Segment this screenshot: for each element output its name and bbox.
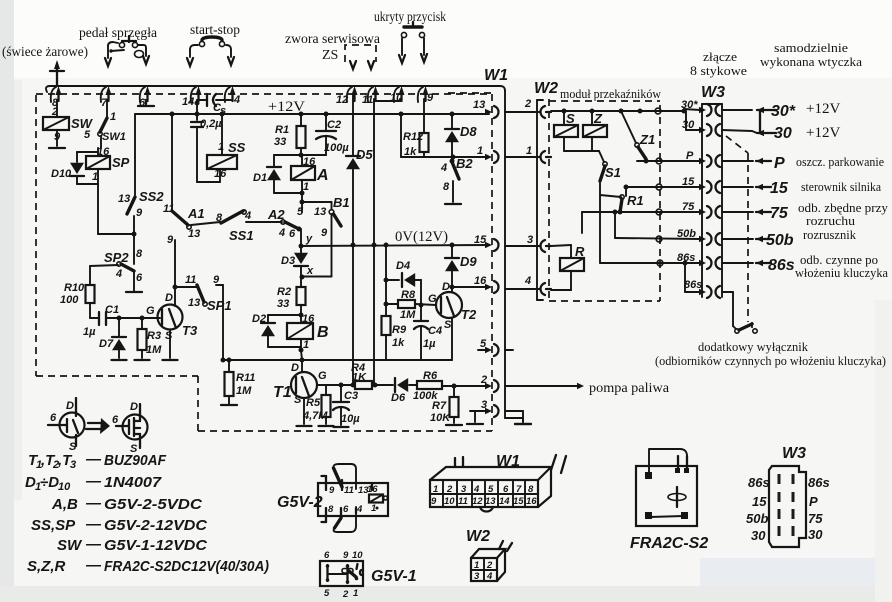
svg-text:D1: D1 bbox=[253, 172, 267, 184]
wire T1 gate bbox=[317, 384, 355, 386]
wire 0V to R9 branch bbox=[385, 245, 387, 316]
svg-text:T2: T2 bbox=[461, 307, 477, 322]
+12V rail wire bbox=[135, 113, 489, 115]
label pompa paliwa bbox=[589, 381, 670, 396]
W2 plug 3D view bbox=[466, 528, 512, 582]
0V rail wire bbox=[301, 245, 489, 246]
pushbutton start-stop bbox=[187, 37, 234, 66]
svg-text:1: 1 bbox=[353, 588, 358, 599]
svg-text:Z: Z bbox=[593, 111, 603, 126]
FRA2C-S2 relay drawing bbox=[630, 449, 708, 552]
svg-text:100µ: 100µ bbox=[324, 142, 349, 154]
svg-text:5: 5 bbox=[84, 129, 91, 141]
switch pedał sprzęgła bbox=[105, 36, 149, 66]
relay R bbox=[551, 244, 585, 290]
svg-text:3: 3 bbox=[481, 399, 487, 411]
svg-text:R9: R9 bbox=[392, 324, 407, 336]
wire T1 source bbox=[303, 398, 305, 424]
wire SP2 to ground bbox=[133, 271, 135, 291]
svg-text:4: 4 bbox=[524, 275, 531, 287]
svg-text:4: 4 bbox=[356, 504, 363, 515]
wire rail to A1 bbox=[171, 114, 173, 210]
bus pin 11 bbox=[362, 86, 379, 106]
svg-text:16: 16 bbox=[214, 168, 227, 180]
svg-text:S1: S1 bbox=[605, 165, 621, 180]
svg-text:R2: R2 bbox=[277, 286, 291, 298]
svg-text:włożeniu kluczyka: włożeniu kluczyka bbox=[795, 266, 888, 280]
W3 plug drawing bbox=[746, 445, 830, 547]
svg-text:2: 2 bbox=[342, 589, 349, 600]
lower rail wire bbox=[221, 358, 387, 363]
svg-text:SW1: SW1 bbox=[102, 131, 126, 143]
svg-text:SP1: SP1 bbox=[207, 298, 232, 313]
svg-text:S,Z,R: S,Z,R bbox=[27, 558, 66, 575]
W1 pin 1 bbox=[477, 145, 499, 163]
label ukryty przycisk bbox=[374, 10, 446, 25]
G5V-1 pinout bbox=[320, 550, 417, 600]
transistor T2 bbox=[428, 281, 477, 331]
svg-text:B2: B2 bbox=[456, 156, 473, 171]
svg-text:W2: W2 bbox=[466, 528, 490, 545]
svg-text:86s: 86s bbox=[768, 257, 795, 274]
svg-text:1: 1 bbox=[474, 560, 479, 571]
svg-text:6: 6 bbox=[112, 414, 119, 426]
wire S Z common bbox=[564, 151, 604, 162]
bus pin 8 bbox=[51, 86, 62, 109]
svg-text:FRA2C-S2DC12V(40/30A): FRA2C-S2DC12V(40/30A) bbox=[104, 558, 269, 575]
svg-text:W3: W3 bbox=[782, 445, 806, 462]
legend line SW bbox=[57, 536, 208, 554]
plug terminal bbox=[722, 236, 771, 242]
label złącze 8 stykowe bbox=[690, 50, 747, 78]
svg-text:G5V-2-5VDC: G5V-2-5VDC bbox=[104, 496, 203, 513]
wire W3 to plug 30 bbox=[722, 130, 757, 133]
svg-text:50b: 50b bbox=[746, 511, 768, 526]
svg-text:1: 1 bbox=[526, 145, 532, 157]
svg-text:1M: 1M bbox=[400, 309, 416, 321]
W3 pin 75 bbox=[699, 206, 720, 218]
ground at W1 bottom right bbox=[515, 423, 531, 425]
diode D10 bbox=[51, 152, 98, 184]
resistor R5 bbox=[302, 385, 331, 424]
svg-text:12: 12 bbox=[472, 496, 483, 507]
relay Z bbox=[583, 111, 607, 151]
svg-text:R5: R5 bbox=[306, 397, 321, 409]
resistor R12 bbox=[401, 99, 429, 158]
svg-text:(świece żarowe): (świece żarowe) bbox=[2, 45, 88, 60]
resistor R4 bbox=[351, 245, 394, 389]
diode D9 bbox=[445, 245, 477, 290]
svg-text:12: 12 bbox=[336, 94, 348, 106]
wire 86s branch down bbox=[683, 261, 703, 293]
transistor T3 bbox=[146, 292, 198, 342]
resistor R10 bbox=[60, 282, 95, 306]
svg-text:D: D bbox=[442, 281, 450, 293]
label 0V(12V) bbox=[395, 229, 448, 245]
svg-text:86s: 86s bbox=[808, 475, 830, 490]
label samodzielnie wykonana wtyczka bbox=[760, 41, 862, 69]
ground below SW bbox=[49, 147, 65, 149]
wire W1 right edge bbox=[505, 91, 523, 422]
switch SP1 bbox=[185, 274, 232, 313]
svg-text:S: S bbox=[294, 394, 302, 406]
resistor R2 bbox=[277, 277, 306, 315]
W3 connector frame bbox=[701, 84, 725, 297]
resistor R3 bbox=[138, 318, 163, 358]
wire pin14 down bbox=[195, 100, 200, 120]
svg-text:Z1: Z1 bbox=[639, 132, 655, 147]
label pedał sprzęgła bbox=[79, 26, 158, 41]
svg-text:4: 4 bbox=[233, 94, 240, 106]
svg-text:1: 1 bbox=[371, 503, 376, 514]
svg-text:10µ: 10µ bbox=[341, 413, 360, 425]
switch SS2 bbox=[118, 189, 164, 219]
plug terminal bbox=[722, 260, 771, 266]
svg-text:D8: D8 bbox=[460, 124, 477, 139]
wire T3 source to ground bbox=[169, 330, 171, 358]
wire SS loop bbox=[197, 169, 220, 182]
svg-text:D4: D4 bbox=[396, 260, 410, 272]
svg-text:R1: R1 bbox=[275, 124, 289, 136]
svg-text:G: G bbox=[318, 370, 327, 382]
svg-text:10: 10 bbox=[390, 92, 403, 104]
module top wire bbox=[551, 108, 684, 114]
capacitor 0.2u bbox=[191, 118, 222, 182]
svg-text:+12V: +12V bbox=[806, 101, 840, 117]
label dodatkowy wyłącznik bbox=[698, 339, 808, 354]
svg-text:16: 16 bbox=[526, 496, 537, 507]
svg-text:W2: W2 bbox=[534, 80, 558, 97]
label 30 right bbox=[774, 125, 840, 142]
relay module dashed box bbox=[549, 99, 660, 301]
svg-text:1M: 1M bbox=[236, 385, 252, 397]
wire A1 to SS1 bbox=[191, 212, 223, 225]
svg-text:T3: T3 bbox=[182, 323, 198, 338]
ground below R3 bbox=[135, 359, 150, 361]
W2 pin 1 bbox=[526, 145, 551, 163]
svg-text:C4: C4 bbox=[428, 325, 442, 337]
wire node x loop bbox=[300, 275, 332, 280]
label zwora serwisowa bbox=[285, 32, 381, 47]
W1 pin 13 bbox=[473, 99, 499, 118]
ground below R5 bbox=[319, 425, 334, 427]
bus pin 7 bbox=[101, 86, 112, 109]
svg-text:R3: R3 bbox=[147, 330, 161, 342]
W2 pin 3 bbox=[527, 234, 551, 252]
legend line T1 T2 T3 bbox=[28, 451, 167, 471]
svg-text:13: 13 bbox=[188, 297, 200, 309]
svg-text:13: 13 bbox=[314, 206, 326, 218]
svg-text:1N4007: 1N4007 bbox=[104, 474, 162, 491]
svg-text:R: R bbox=[575, 244, 585, 259]
diode D6 bbox=[391, 378, 417, 404]
wire pin8 to SW bbox=[56, 100, 58, 117]
label P right bbox=[774, 155, 884, 172]
svg-text:B1: B1 bbox=[333, 195, 350, 210]
W3 pin 15 bbox=[699, 181, 720, 193]
svg-text:14: 14 bbox=[499, 496, 510, 507]
svg-text:10K: 10K bbox=[430, 412, 451, 424]
svg-text:A,B: A,B bbox=[51, 496, 78, 513]
svg-text:W1: W1 bbox=[484, 67, 508, 84]
label świece żarowe bbox=[2, 45, 88, 60]
label 15 right bbox=[770, 180, 881, 197]
svg-text:3: 3 bbox=[527, 234, 533, 246]
bus wire top bbox=[46, 86, 505, 92]
svg-text:1k: 1k bbox=[392, 337, 405, 349]
svg-text:15: 15 bbox=[474, 234, 487, 246]
svg-text:10: 10 bbox=[58, 481, 71, 493]
service jumper ZS dashed box bbox=[345, 45, 376, 62]
svg-text:9: 9 bbox=[431, 496, 437, 507]
legend line S Z R bbox=[27, 557, 269, 575]
svg-text:33: 33 bbox=[274, 136, 286, 148]
svg-text:P: P bbox=[809, 494, 818, 509]
plug terminal bbox=[722, 209, 771, 215]
W1 connector dashed edge bbox=[448, 67, 508, 93]
svg-text:50b: 50b bbox=[677, 228, 696, 240]
svg-text:D5: D5 bbox=[356, 147, 373, 162]
svg-text:start-stop: start-stop bbox=[190, 23, 240, 38]
svg-text:1: 1 bbox=[110, 111, 116, 123]
bus pin 6 bbox=[139, 86, 151, 109]
svg-text:odb. czynne po: odb. czynne po bbox=[800, 253, 878, 267]
svg-text:15: 15 bbox=[752, 494, 767, 509]
label 50b right bbox=[766, 228, 857, 249]
svg-text:1M: 1M bbox=[146, 344, 162, 356]
svg-text:oszcz. parkowanie: oszcz. parkowanie bbox=[796, 155, 884, 169]
svg-text:33: 33 bbox=[277, 298, 289, 310]
ground below T1 bbox=[297, 425, 312, 427]
legend line SS SP bbox=[31, 516, 208, 534]
wire pin5 stub bbox=[478, 349, 513, 351]
bus pin 4 bbox=[225, 86, 240, 106]
resistor R9 bbox=[382, 316, 407, 360]
svg-text:8: 8 bbox=[136, 248, 143, 260]
svg-text:—: — bbox=[85, 451, 102, 468]
svg-text:6: 6 bbox=[136, 272, 143, 284]
switch A1 bbox=[163, 203, 205, 240]
svg-text:9: 9 bbox=[329, 485, 335, 496]
switch A2 bbox=[267, 207, 302, 240]
plug terminal bbox=[722, 184, 771, 190]
svg-text:6: 6 bbox=[50, 412, 57, 424]
switch S1 bbox=[600, 162, 621, 197]
diode D7 bbox=[99, 318, 126, 358]
ground pin3 far bbox=[515, 423, 531, 425]
W3 pin 86s bbox=[699, 257, 720, 269]
svg-text:30: 30 bbox=[808, 527, 823, 542]
bus pin 9 bbox=[418, 86, 434, 104]
svg-text:G5V-2: G5V-2 bbox=[277, 494, 323, 511]
svg-text:D2: D2 bbox=[252, 313, 266, 325]
svg-text:D10: D10 bbox=[51, 168, 72, 180]
svg-text:30: 30 bbox=[682, 119, 695, 131]
switch SW1 bbox=[84, 100, 126, 143]
wire pin3 ground right bbox=[522, 411, 524, 422]
svg-text:4: 4 bbox=[115, 268, 122, 280]
svg-text:samodzielnie: samodzielnie bbox=[774, 41, 849, 55]
wire SP1 pin9 down bbox=[213, 274, 223, 360]
svg-text:D3: D3 bbox=[281, 255, 295, 267]
diode D5 bbox=[346, 94, 373, 245]
svg-text:4: 4 bbox=[244, 210, 251, 222]
svg-text:50b: 50b bbox=[766, 232, 794, 249]
resistor R8 bbox=[384, 289, 437, 321]
W3 pin 30 bbox=[699, 124, 720, 136]
svg-text:—: — bbox=[85, 495, 102, 512]
svg-text:15: 15 bbox=[682, 176, 695, 188]
ground below R11 bbox=[221, 404, 237, 406]
G5V-2 pinout bbox=[277, 464, 388, 532]
svg-text:D: D bbox=[66, 400, 74, 412]
svg-text:złącze: złącze bbox=[703, 50, 737, 64]
bus pin 10 bbox=[390, 86, 405, 104]
wire W3 to plug 30* bbox=[722, 109, 752, 111]
W3 pin 50b bbox=[699, 233, 720, 245]
svg-text:SS2: SS2 bbox=[139, 189, 164, 204]
svg-text:pompa paliwa: pompa paliwa bbox=[589, 381, 670, 396]
svg-text:1: 1 bbox=[303, 181, 309, 193]
svg-text:13: 13 bbox=[188, 228, 200, 240]
svg-text:75: 75 bbox=[770, 205, 789, 222]
svg-text:T1: T1 bbox=[273, 384, 292, 401]
svg-text:ukryty przycisk: ukryty przycisk bbox=[374, 10, 446, 25]
svg-text:2: 2 bbox=[524, 98, 531, 110]
svg-text:75: 75 bbox=[808, 511, 823, 526]
resistor R6 bbox=[413, 370, 487, 402]
svg-text:G: G bbox=[146, 305, 155, 317]
svg-text:5: 5 bbox=[297, 206, 304, 218]
ground at pin 6 bbox=[138, 100, 154, 106]
wire T2 source bbox=[451, 318, 453, 360]
wire R9 C4 bottom bbox=[386, 359, 452, 361]
svg-text:P: P bbox=[686, 150, 694, 162]
svg-text:D9: D9 bbox=[460, 254, 477, 269]
svg-text:15: 15 bbox=[513, 496, 524, 507]
wire B1 down node 9 bbox=[321, 214, 332, 277]
svg-text:R11: R11 bbox=[236, 372, 255, 384]
svg-text:C3: C3 bbox=[344, 390, 358, 402]
ground below C3 bbox=[334, 426, 349, 428]
svg-text:—: — bbox=[85, 557, 102, 574]
label ZS bbox=[322, 48, 338, 63]
svg-text:4,7M: 4,7M bbox=[302, 410, 328, 422]
svg-text:R12: R12 bbox=[403, 131, 423, 143]
svg-text:13: 13 bbox=[118, 193, 130, 205]
diode D2 bbox=[252, 313, 304, 348]
svg-text:6: 6 bbox=[324, 550, 330, 561]
svg-text:13: 13 bbox=[473, 99, 485, 111]
svg-text:zwora serwisowa: zwora serwisowa bbox=[285, 32, 381, 47]
svg-text:s: s bbox=[220, 105, 226, 117]
svg-text:SP: SP bbox=[112, 155, 130, 170]
dashed wire to extra switch bbox=[726, 136, 752, 328]
svg-text:C2: C2 bbox=[327, 119, 341, 131]
relay SP bbox=[86, 148, 130, 184]
svg-text:1: 1 bbox=[477, 145, 483, 157]
label 30* right bbox=[771, 101, 840, 120]
W1 pin 5 bbox=[480, 338, 499, 356]
wire SP2 left to R10 bbox=[90, 265, 118, 285]
svg-text:G5V-1: G5V-1 bbox=[371, 568, 417, 585]
legend line A B bbox=[51, 495, 203, 513]
resistor R1 bbox=[274, 114, 306, 155]
W3 pin 86s2 bbox=[699, 286, 720, 298]
wire SP chain down bbox=[98, 184, 137, 237]
ground pin3 left bbox=[467, 423, 483, 425]
svg-text:G: G bbox=[428, 293, 437, 305]
svg-text:3: 3 bbox=[70, 459, 76, 471]
wire A to B1 bbox=[297, 193, 332, 218]
capacitor C3 bbox=[333, 383, 360, 426]
wire 86s row bbox=[600, 183, 700, 266]
svg-text:FRA2C-S2: FRA2C-S2 bbox=[630, 535, 708, 552]
legend MOSFET symbol full bbox=[112, 401, 148, 455]
svg-text:sterownik silnika: sterownik silnika bbox=[801, 180, 881, 194]
plug terminal bbox=[722, 158, 771, 164]
svg-text:1µ: 1µ bbox=[83, 326, 96, 338]
svg-text:rozrusznik: rozrusznik bbox=[803, 228, 857, 242]
hidden pushbutton ukryty przycisk bbox=[399, 22, 427, 63]
svg-text:S: S bbox=[165, 330, 173, 342]
wire 30 row bbox=[682, 111, 700, 131]
diode D4 bbox=[384, 260, 422, 304]
wire T2 drain bbox=[452, 287, 487, 292]
svg-text:2: 2 bbox=[480, 374, 487, 386]
wire SS2 down bbox=[134, 216, 143, 264]
svg-text:30: 30 bbox=[774, 125, 792, 142]
svg-text:1µ: 1µ bbox=[423, 338, 436, 350]
svg-text:ZS: ZS bbox=[322, 48, 338, 63]
svg-text:4: 4 bbox=[278, 227, 285, 239]
W1 plug 3D view bbox=[430, 453, 566, 512]
svg-text:S: S bbox=[566, 111, 575, 126]
svg-text:16: 16 bbox=[367, 484, 378, 495]
svg-text:R10: R10 bbox=[64, 282, 85, 294]
svg-text:÷D: ÷D bbox=[40, 474, 59, 491]
svg-text:D6: D6 bbox=[391, 392, 406, 404]
W3 pin 30* bbox=[699, 104, 720, 116]
label 86s right bbox=[768, 253, 888, 280]
wire 75 row bbox=[582, 201, 700, 233]
switch Z1 bbox=[621, 111, 655, 164]
ground below SP2 bbox=[126, 291, 142, 293]
zwora serwisowa wires bbox=[350, 61, 374, 69]
dashed module border bbox=[36, 94, 492, 431]
svg-text:P: P bbox=[774, 155, 785, 172]
svg-text:1K: 1K bbox=[352, 372, 367, 384]
wire pin11 pin10 down bbox=[374, 99, 400, 385]
wire 30 star row bbox=[681, 99, 700, 114]
relay B bbox=[287, 313, 329, 353]
legend arrow bbox=[86, 418, 110, 434]
relay SW bbox=[43, 106, 94, 143]
svg-text:10: 10 bbox=[352, 550, 363, 561]
bus pin 12 bbox=[336, 86, 358, 106]
glow plug output arrow (świece żarowe) bbox=[50, 60, 64, 86]
switch SS1 bbox=[221, 210, 254, 243]
capacitor C2 bbox=[316, 114, 349, 155]
W2 pin 2 bbox=[524, 98, 551, 118]
svg-text:R1: R1 bbox=[627, 193, 644, 208]
svg-text:9: 9 bbox=[321, 227, 328, 239]
label odbiorniki bbox=[655, 353, 886, 368]
svg-text:+12V: +12V bbox=[806, 125, 840, 141]
wire B to T1 drain bbox=[291, 350, 305, 374]
svg-text:30*: 30* bbox=[771, 103, 796, 120]
wire rail down to SS2 bbox=[134, 114, 136, 195]
